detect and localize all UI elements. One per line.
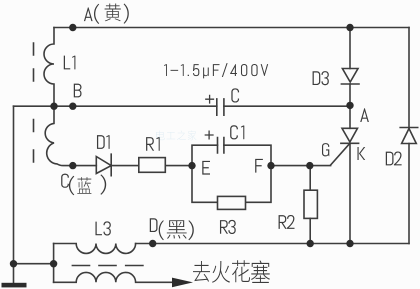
parallel network box E-F xyxy=(192,145,271,202)
label node A xyxy=(360,108,369,122)
label A (top node) xyxy=(84,7,93,21)
label close paren D(hei) xyxy=(188,220,193,240)
label hanzi hei xyxy=(167,220,187,239)
wire right rail bottom xyxy=(408,144,410,244)
diode D3 xyxy=(341,69,359,85)
wire top A bus xyxy=(54,27,409,29)
label C xyxy=(231,88,239,102)
watermark zhi xyxy=(177,131,186,141)
label close paren C(lan) xyxy=(100,174,106,194)
resistor R2 xyxy=(304,190,317,218)
label D2 xyxy=(386,151,402,165)
plus sign C xyxy=(206,95,214,103)
diode D2 xyxy=(400,128,418,144)
label open paren A(huang) xyxy=(94,4,99,24)
wire bottom D bus xyxy=(136,243,409,245)
label hua xyxy=(232,260,250,282)
wire D3 to node A xyxy=(349,84,351,105)
label L3 xyxy=(95,221,110,235)
label R3 xyxy=(220,220,236,234)
wire ground link xyxy=(14,263,54,265)
wire node A to thyristor xyxy=(349,105,351,128)
label B xyxy=(74,84,82,98)
transformer L3 primary winding xyxy=(54,244,136,254)
label node F xyxy=(255,159,263,173)
thyristor gate lead xyxy=(331,143,350,165)
label open paren C(lan) xyxy=(69,176,74,195)
core dashes L1 xyxy=(33,43,35,81)
label sai (plug) xyxy=(251,260,270,283)
capacitor C xyxy=(217,99,224,115)
resistor R1 xyxy=(139,158,166,173)
label close paren A(huang) xyxy=(124,3,129,23)
diode D1 xyxy=(96,154,111,176)
label open paren D(hei) xyxy=(159,220,164,240)
label D1 xyxy=(97,135,110,149)
transformer L3 secondary winding xyxy=(54,272,173,282)
wire R1 to E xyxy=(165,165,192,167)
thyristor anode-cathode xyxy=(341,128,359,143)
label C1 xyxy=(230,125,244,139)
label R1 xyxy=(146,137,160,151)
capacitor C1 xyxy=(218,138,224,154)
wire R2 to bus xyxy=(309,218,311,243)
wire B bus xyxy=(14,105,351,107)
watermark gong xyxy=(167,132,176,139)
label D3 xyxy=(313,71,329,85)
wire D1 to R1 xyxy=(111,165,139,167)
inductor L1 xyxy=(44,28,54,107)
arrow to spark plug xyxy=(172,278,193,288)
label R2 xyxy=(279,215,295,229)
label L1 xyxy=(64,56,76,70)
plus sign C1 xyxy=(205,131,213,139)
label huo (spark) xyxy=(212,261,230,283)
label node G xyxy=(322,143,329,156)
label hanzi lan xyxy=(77,177,91,194)
wire thyristor cathode down xyxy=(349,143,351,243)
core dashes L2 xyxy=(33,120,35,163)
inductor L2 xyxy=(45,106,73,165)
label node K xyxy=(357,147,365,160)
watermark jia xyxy=(188,130,197,140)
resistor R3 xyxy=(218,196,246,209)
label D (black node) xyxy=(150,218,158,232)
label qu (to) xyxy=(193,261,210,282)
label C (blue node) xyxy=(61,174,69,188)
label node E xyxy=(202,161,210,175)
transformer L3 left link xyxy=(53,244,55,283)
wire C node to D1 xyxy=(73,165,97,167)
wire left rail xyxy=(13,106,15,283)
ground xyxy=(2,283,27,288)
wire G to R2 xyxy=(309,166,311,190)
transformer L3 core dashes xyxy=(72,265,142,267)
wire right rail top xyxy=(408,28,410,128)
wire F to G xyxy=(271,165,331,167)
wire top to D3 xyxy=(349,28,351,69)
label hanzi huang xyxy=(105,4,121,22)
value 1-1.5uF/400V xyxy=(164,63,268,78)
watermark dian xyxy=(156,131,165,141)
